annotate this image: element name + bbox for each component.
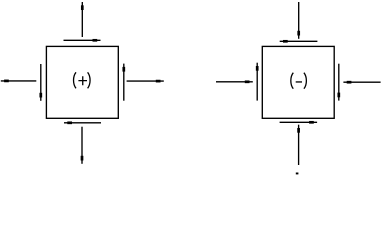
wire tangential arrow beside right edge of (+) pointing up [122, 64, 125, 101]
node label (+) plus sign [78, 76, 87, 85]
node label (-) left parenthesis [291, 73, 293, 89]
wire inward arrow right of (-) pointing left [343, 81, 380, 84]
wire outward arrow top of (+) pointing up [81, 2, 84, 37]
wire inward arrow bottom of (-) pointing up [297, 125, 300, 165]
wire inward arrow left of (-) pointing right [216, 80, 253, 83]
wire outward arrow right of (+) pointing right [127, 80, 164, 83]
node label (+) left parenthesis [74, 72, 76, 88]
wire tangential arrow below bottom edge of (+) pointing left [64, 121, 101, 124]
wire tangential arrow below bottom edge of (-) pointing right [280, 121, 318, 124]
wire tangential arrow beside left edge of (-) pointing up [256, 63, 259, 101]
wire inward arrow top of (-) pointing down [297, 2, 300, 39]
wire tangential arrow beside right edge of (-) pointing down [337, 64, 340, 101]
node label (-) minus sign [296, 81, 302, 83]
node label (+) right parenthesis [88, 72, 90, 88]
wire tangential arrow beside left edge of (+) pointing down [39, 64, 42, 101]
wire outward arrow left of (+) pointing left [1, 80, 37, 83]
wire tangential arrow above top edge of (+) pointing right [64, 39, 101, 42]
wire outward arrow bottom of (+) pointing down [81, 127, 84, 164]
node positive plaquette square [46, 46, 118, 118]
node period mark [296, 173, 299, 175]
wire tangential arrow above top edge of (-) pointing left [280, 40, 318, 43]
node label (-) right parenthesis [304, 73, 306, 89]
node negative plaquette square [262, 46, 334, 118]
